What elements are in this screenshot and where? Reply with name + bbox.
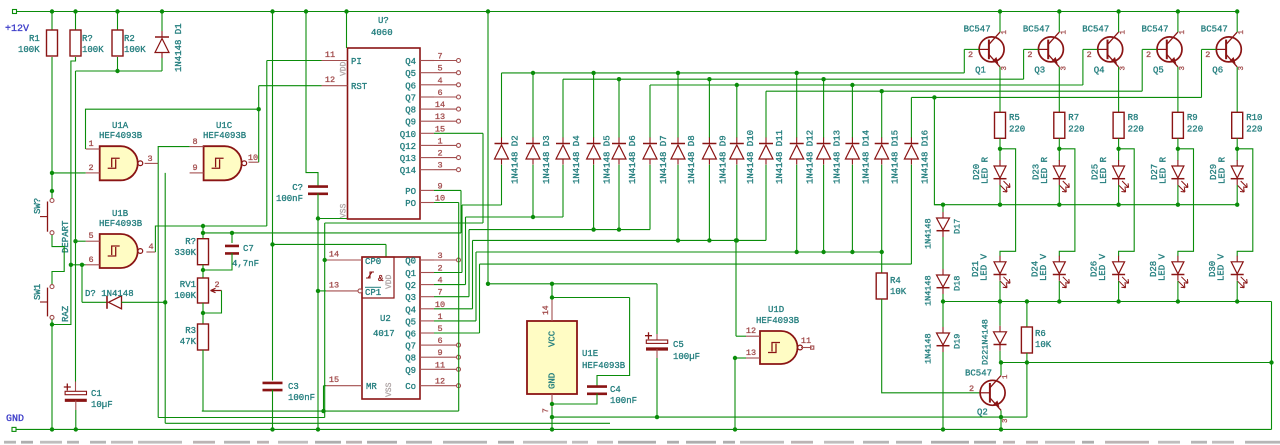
wire D12 bottom stub xyxy=(796,165,798,252)
svg-text:Q3: Q3 xyxy=(405,293,416,303)
pin 10 xyxy=(248,153,259,163)
diode D18 xyxy=(924,269,963,306)
wire feedback xyxy=(86,107,261,149)
LED D23 xyxy=(1031,156,1069,192)
svg-text:VDD: VDD xyxy=(385,274,394,289)
svg-text:3: 3 xyxy=(1060,66,1068,71)
wire RV1 wiper xyxy=(201,291,222,316)
svg-text:13: 13 xyxy=(329,281,339,291)
svg-text:C4: C4 xyxy=(610,385,621,395)
svg-text:Q1: Q1 xyxy=(405,269,416,279)
wire VCC bus xyxy=(488,282,657,286)
LED D30 xyxy=(1208,253,1247,287)
wire LED R rail xyxy=(934,203,1237,207)
svg-text:3: 3 xyxy=(147,154,152,164)
wire Q3 base xyxy=(1024,49,1039,79)
pin 3 Q14 xyxy=(400,161,461,177)
svg-text:MR: MR xyxy=(366,382,377,392)
svg-text:R4: R4 xyxy=(890,276,901,286)
svg-text:2: 2 xyxy=(969,384,974,394)
svg-text:CP0: CP0 xyxy=(365,257,381,267)
svg-text:Q7: Q7 xyxy=(405,342,416,352)
svg-text:2: 2 xyxy=(1205,50,1210,60)
svg-text:11: 11 xyxy=(325,50,335,60)
svg-text:100K: 100K xyxy=(82,45,104,55)
svg-text:1N4148 D10: 1N4148 D10 xyxy=(746,130,756,184)
svg-text:Q1: Q1 xyxy=(975,66,986,76)
gate U1A xyxy=(99,121,143,180)
wire D5 bottom stub xyxy=(593,165,595,230)
svg-text:DEPART: DEPART xyxy=(61,220,71,253)
svg-text:100K: 100K xyxy=(174,291,196,301)
svg-text:SW?: SW? xyxy=(33,198,43,214)
svg-text:Q5: Q5 xyxy=(405,317,416,327)
pin 4 Q2 xyxy=(405,276,465,292)
wire LED V bypass xyxy=(1178,149,1194,256)
wire D17-D18 xyxy=(942,237,944,269)
pin 9 xyxy=(190,163,204,173)
wire Q4 base xyxy=(1083,49,1098,85)
svg-text:1N4148: 1N4148 xyxy=(924,333,934,364)
capacitor C4 xyxy=(550,385,637,406)
svg-text:4,7nF: 4,7nF xyxy=(232,259,259,269)
svg-text:D18: D18 xyxy=(953,276,963,291)
transistor Q6 xyxy=(1201,25,1246,76)
svg-text:3: 3 xyxy=(1120,66,1128,71)
wire LED V bypass xyxy=(1000,149,1016,256)
pin 7 xyxy=(542,394,554,432)
transistor Q1 xyxy=(964,25,1009,76)
pin 11 Q9 xyxy=(405,360,460,376)
svg-text:2: 2 xyxy=(1087,50,1092,60)
svg-text:15: 15 xyxy=(329,375,339,385)
pin 10 Q4 xyxy=(405,300,472,316)
IC U2 4017 box xyxy=(362,257,420,399)
pin 13 CP1 xyxy=(326,281,381,299)
junction xyxy=(50,9,54,13)
svg-text:LED R: LED R xyxy=(1158,156,1168,184)
svg-text:LED V: LED V xyxy=(1217,253,1227,281)
svg-text:2: 2 xyxy=(968,50,973,60)
IC U1E xyxy=(527,321,626,394)
junction xyxy=(115,9,119,13)
gate U1C xyxy=(203,121,247,180)
wire bus 423 xyxy=(165,422,610,424)
wire rail 417 xyxy=(552,416,1027,418)
pin 6 Q7 xyxy=(405,336,460,352)
svg-text:U?: U? xyxy=(378,16,389,26)
wire D22 feed xyxy=(998,299,1002,326)
wire R bottom xyxy=(1057,138,1061,160)
svg-text:PI: PI xyxy=(351,57,362,67)
diode D16 xyxy=(904,130,930,184)
pin 14 xyxy=(542,298,552,322)
resistor R9 xyxy=(1172,112,1203,138)
svg-text:D19: D19 xyxy=(953,334,963,349)
wire PO9 riser xyxy=(203,190,461,233)
svg-text:1N4148 D11: 1N4148 D11 xyxy=(775,130,785,184)
svg-text:Q10: Q10 xyxy=(400,130,416,140)
svg-text:Q14: Q14 xyxy=(400,166,416,176)
resistor R? 330K xyxy=(174,226,208,265)
pin 14 CP0 xyxy=(326,250,381,268)
transistor Q2 xyxy=(965,369,1010,424)
svg-text:7: 7 xyxy=(542,408,551,413)
wire +12V rail xyxy=(13,10,1238,14)
pin 15 Q10 xyxy=(400,124,445,140)
svg-text:GND: GND xyxy=(6,414,24,425)
LED D29 xyxy=(1209,156,1247,192)
svg-text:Q0: Q0 xyxy=(405,257,416,267)
resistor R6 xyxy=(1021,299,1051,362)
svg-text:10µF: 10µF xyxy=(91,400,113,410)
wire matrix top bus y79.2 xyxy=(563,77,1024,138)
svg-text:Q4: Q4 xyxy=(405,57,416,67)
svg-text:220: 220 xyxy=(1187,125,1203,135)
pin 6 xyxy=(86,255,100,265)
junction xyxy=(1116,9,1120,13)
wire R bottom xyxy=(1176,138,1180,160)
wire pullup bus xyxy=(76,57,163,73)
wire matrix bus y217 xyxy=(466,215,564,285)
svg-text:RV1: RV1 xyxy=(180,280,196,290)
svg-text:12: 12 xyxy=(325,75,335,85)
svg-text:R10: R10 xyxy=(1246,113,1262,123)
capacitor C1 xyxy=(64,382,113,432)
wire matrix bus y264 xyxy=(480,264,912,333)
svg-text:C7: C7 xyxy=(243,244,254,254)
diode D8 xyxy=(671,135,697,184)
svg-text:BC547: BC547 xyxy=(1142,25,1169,35)
wire DEPART jog xyxy=(52,235,64,284)
capacitor C5 xyxy=(645,284,700,420)
wire D4 bottom stub xyxy=(562,165,564,217)
wire D7 bottom stub xyxy=(649,165,651,230)
gate U1D xyxy=(756,305,802,364)
svg-text:1N4148 D14: 1N4148 D14 xyxy=(861,130,871,184)
wire Q2 emitter xyxy=(999,410,1003,431)
pin 11 PI xyxy=(322,50,362,67)
wire Q1 collector xyxy=(999,12,1001,33)
wire Q4 collector xyxy=(1118,12,1120,33)
wire LED V bypass xyxy=(1119,149,1135,256)
svg-text:3: 3 xyxy=(1001,66,1009,71)
wire U1A out drop xyxy=(158,163,325,417)
LED D26 xyxy=(1090,253,1129,287)
wire LED R cathode xyxy=(1235,185,1239,207)
svg-text:R3: R3 xyxy=(185,326,196,336)
pin 1 Q12 xyxy=(400,136,461,152)
resistor R1 xyxy=(18,12,58,57)
IC U? 4060 box xyxy=(340,16,421,219)
svg-text:C5: C5 xyxy=(673,340,684,350)
pin 8 xyxy=(190,137,204,147)
switch SW1 xyxy=(40,285,54,320)
svg-text:R9: R9 xyxy=(1187,113,1198,123)
svg-text:11: 11 xyxy=(801,336,811,346)
svg-text:220: 220 xyxy=(1128,125,1144,135)
wire R?a bottom xyxy=(71,57,76,265)
svg-text:10K: 10K xyxy=(890,287,907,297)
wire PO10 riser xyxy=(434,203,459,412)
wire Q10 riser xyxy=(434,133,483,223)
pin 4 Q6 xyxy=(405,76,460,92)
wire D19 to GND xyxy=(941,352,945,432)
wire LED V bypass xyxy=(1237,149,1253,256)
pin 14 Q8 xyxy=(405,100,460,116)
svg-text:D17: D17 xyxy=(953,219,963,234)
svg-text:HEF4093B: HEF4093B xyxy=(99,131,143,141)
wire pin5 join xyxy=(73,239,85,243)
wire matrix top bus y97.4 xyxy=(911,97,1201,137)
transistor Q4 xyxy=(1082,25,1127,76)
wire Q6 emitter xyxy=(1236,67,1238,112)
pin 1 xyxy=(86,139,100,149)
svg-text:14: 14 xyxy=(329,250,339,260)
wire U1C out riser xyxy=(258,86,260,163)
wire R4 to Q2 base xyxy=(882,299,980,393)
wire D2 bottom stub xyxy=(501,165,503,205)
wire U1D pin13 drop xyxy=(733,356,746,432)
wire LED V cathode xyxy=(998,281,1002,304)
svg-text:U1C: U1C xyxy=(216,121,233,131)
pin 5 xyxy=(86,231,100,241)
diode D13 xyxy=(817,130,843,184)
LED D25 xyxy=(1091,156,1129,192)
pin 5 Q6 xyxy=(405,324,479,340)
pin 9 PO xyxy=(405,181,442,197)
svg-text:100µF: 100µF xyxy=(673,352,700,362)
wire Q6 collector xyxy=(1236,12,1238,33)
svg-text:PO: PO xyxy=(405,187,416,197)
wire R? bottom xyxy=(201,265,205,278)
svg-text:47K: 47K xyxy=(180,337,197,347)
LED D27 xyxy=(1150,156,1188,192)
svg-text:3: 3 xyxy=(1002,418,1010,423)
wire matrix top bus y91.2 xyxy=(766,89,1142,138)
pin 11 xyxy=(801,336,814,349)
wire R6 bottom riser xyxy=(1026,363,1028,418)
wire LED R cathode xyxy=(998,185,1002,207)
wire node 362 xyxy=(1000,360,1274,364)
svg-text:VSS: VSS xyxy=(385,382,394,397)
wire LED R cathode xyxy=(1176,185,1180,207)
svg-text:6: 6 xyxy=(88,255,93,265)
wire D22 bottom xyxy=(999,351,1001,363)
svg-text:1N4148: 1N4148 xyxy=(924,218,934,249)
junction xyxy=(1057,9,1061,13)
junction xyxy=(344,9,348,13)
svg-text:1N4148 D9: 1N4148 D9 xyxy=(718,135,728,184)
pin 2 xyxy=(86,163,100,173)
resistor R3 xyxy=(180,313,209,411)
resistor R7 xyxy=(1054,112,1085,138)
svg-text:Q2: Q2 xyxy=(405,281,416,291)
svg-text:4017: 4017 xyxy=(373,329,395,339)
svg-text:3: 3 xyxy=(1179,66,1187,71)
svg-text:Q9: Q9 xyxy=(405,366,416,376)
svg-text:10: 10 xyxy=(248,153,258,163)
diode D12 xyxy=(790,130,816,184)
svg-text:1N4148 D5: 1N4148 D5 xyxy=(603,135,613,184)
wire U1C pin9 riser xyxy=(163,173,167,423)
svg-text:1N4148 D12: 1N4148 D12 xyxy=(806,130,816,184)
wire D14 bottom stub xyxy=(851,165,853,252)
svg-text:LED V: LED V xyxy=(980,253,990,281)
wire CP0 net xyxy=(323,223,484,418)
diode D15 xyxy=(875,130,901,184)
svg-text:BC547: BC547 xyxy=(964,25,991,35)
svg-text:1: 1 xyxy=(1179,30,1187,35)
svg-text:Q13: Q13 xyxy=(400,154,416,164)
wire C4 loop xyxy=(597,298,630,388)
svg-text:R?: R? xyxy=(82,34,93,44)
svg-text:1: 1 xyxy=(1060,30,1068,35)
junction xyxy=(304,9,308,13)
junction xyxy=(160,9,164,13)
svg-text:VCC: VCC xyxy=(548,330,558,347)
wire D9 bottom stub xyxy=(708,165,710,241)
wire matrix bus y205 xyxy=(462,205,502,273)
diode D11 xyxy=(759,130,785,184)
svg-text:4: 4 xyxy=(148,242,153,252)
svg-text:RAZ: RAZ xyxy=(61,305,71,322)
svg-text:2: 2 xyxy=(88,163,93,173)
wire R bottom xyxy=(998,138,1002,160)
diode D1 xyxy=(155,12,184,73)
diode D4 xyxy=(556,135,582,184)
label DEPART xyxy=(61,220,71,253)
wire Q3 emitter xyxy=(1058,67,1060,112)
wire D16 bottom stub xyxy=(910,165,912,264)
svg-text:D? 1N4148: D? 1N4148 xyxy=(85,289,134,299)
svg-text:HEF4093B: HEF4093B xyxy=(99,219,143,229)
diode D17 xyxy=(924,212,963,249)
wire Q1 emitter xyxy=(999,67,1001,112)
wire SW1 to GND xyxy=(50,320,54,432)
diode D10 xyxy=(730,130,756,184)
resistor R10 xyxy=(1232,112,1263,138)
wire Q5 collector xyxy=(1177,12,1179,33)
wire matrix top bus y85.0 xyxy=(650,83,1083,138)
svg-text:10K: 10K xyxy=(1035,340,1052,350)
svg-text:3: 3 xyxy=(1238,66,1246,71)
wire VCC sub xyxy=(550,284,630,300)
svg-text:RST: RST xyxy=(351,82,368,92)
wire pin6 join xyxy=(69,263,86,267)
resistor R5 xyxy=(995,112,1026,138)
svg-text:1N4148 D16: 1N4148 D16 xyxy=(920,130,930,184)
wire D11 bottom stub xyxy=(765,165,767,241)
svg-text:CP1: CP1 xyxy=(365,288,381,298)
resistor R8 xyxy=(1113,112,1144,138)
wire U1D pin12 riser xyxy=(734,238,746,336)
svg-text:Q5: Q5 xyxy=(405,69,416,79)
pin 2 Q13 xyxy=(400,149,461,165)
svg-text:LED V: LED V xyxy=(1157,253,1167,281)
svg-text:8: 8 xyxy=(192,137,197,147)
svg-text:R6: R6 xyxy=(1035,329,1046,339)
wire D? riser2 xyxy=(81,265,83,303)
svg-text:SW1: SW1 xyxy=(33,284,43,300)
junction xyxy=(1235,9,1239,13)
wire D17 branch xyxy=(932,95,943,204)
diode D7 xyxy=(643,135,669,184)
wire MR net xyxy=(324,386,327,411)
svg-text:Q12: Q12 xyxy=(400,142,416,152)
svg-text:BC547: BC547 xyxy=(965,369,992,379)
junction xyxy=(486,9,490,13)
node +12V label xyxy=(5,24,29,35)
svg-text:Q8: Q8 xyxy=(405,106,416,116)
junction xyxy=(1176,9,1180,13)
svg-text:1N4148 D13: 1N4148 D13 xyxy=(833,130,843,184)
pin 15 MR xyxy=(326,375,377,392)
svg-text:HEF4093B: HEF4093B xyxy=(756,316,800,326)
wire matrix bus y229 xyxy=(469,227,650,296)
pin 4 xyxy=(146,242,155,252)
wire pin5 riser xyxy=(75,71,77,382)
wire LED V bypass xyxy=(1059,149,1075,256)
diode D6 xyxy=(612,135,638,184)
junction xyxy=(73,9,77,13)
junction xyxy=(998,9,1002,13)
resistor R2a xyxy=(70,12,104,57)
svg-text:U1B: U1B xyxy=(112,209,129,219)
LED D24 xyxy=(1030,253,1069,287)
svg-text:1N4148 D7: 1N4148 D7 xyxy=(659,135,669,184)
wire D17 feed xyxy=(942,205,944,212)
pin 12 RST xyxy=(322,75,368,92)
svg-text:100K: 100K xyxy=(124,45,146,55)
svg-text:BC547: BC547 xyxy=(1082,25,1109,35)
svg-text:PO: PO xyxy=(405,199,416,209)
svg-text:1: 1 xyxy=(88,139,93,149)
svg-text:R8: R8 xyxy=(1128,113,1139,123)
svg-text:9: 9 xyxy=(192,163,197,173)
svg-text:220: 220 xyxy=(1068,125,1084,135)
svg-text:220: 220 xyxy=(1009,125,1025,135)
wire LED R cathode xyxy=(1057,185,1061,207)
wire U1B out riser xyxy=(155,224,205,252)
svg-text:1N4148 D6: 1N4148 D6 xyxy=(628,135,638,184)
svg-text:Q2: Q2 xyxy=(977,408,988,418)
svg-text:U1A: U1A xyxy=(112,121,129,131)
svg-text:Q5: Q5 xyxy=(1153,66,1164,76)
resistor R4 xyxy=(876,250,907,299)
svg-text:1N4148 D1: 1N4148 D1 xyxy=(174,23,184,72)
wire R bottom xyxy=(1235,138,1239,160)
capacitor C7 xyxy=(203,231,259,270)
node GND label xyxy=(6,414,24,425)
wire matrix top bus y72.9 xyxy=(502,71,965,138)
pin 13 xyxy=(746,348,760,358)
wire Q5 base xyxy=(1142,49,1157,91)
label SW? xyxy=(33,198,43,214)
pin 3 xyxy=(145,154,159,164)
svg-text:Q8: Q8 xyxy=(405,354,416,364)
wire Q6 base xyxy=(1202,49,1217,97)
wire GND rail xyxy=(12,427,1272,431)
pin 13 Q9 xyxy=(405,112,460,128)
svg-text:13: 13 xyxy=(746,348,756,358)
wire Q1 base xyxy=(964,49,979,73)
diode D3 xyxy=(526,135,552,184)
svg-text:330K: 330K xyxy=(174,248,196,258)
capacitor C3 xyxy=(263,12,316,432)
wire bus 411 xyxy=(202,409,459,413)
resistor R2 xyxy=(112,12,146,57)
